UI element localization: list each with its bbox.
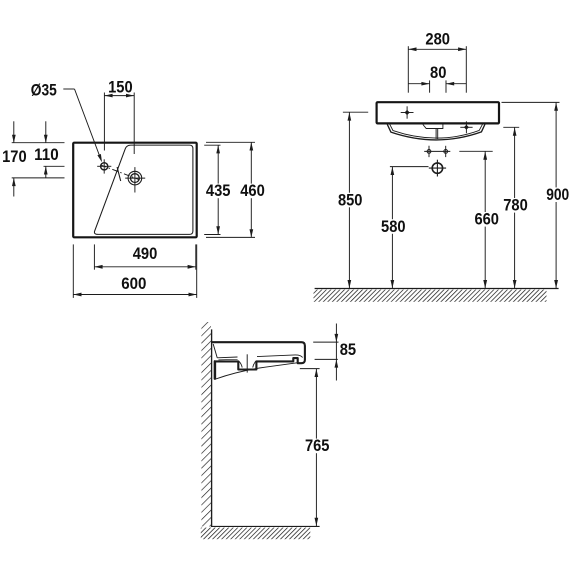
centerline faucet-drain (dash-dot)	[101, 165, 140, 180]
svg-text:150: 150	[108, 78, 133, 96]
floor hatch (side)	[201, 528, 310, 540]
trap funnel curves	[239, 361, 242, 367]
drain outlet (front)	[432, 163, 442, 173]
dim 850	[343, 111, 368, 113]
interior bottom lines	[217, 356, 237, 359]
overflow marker (right)	[460, 126, 472, 128]
svg-text:765: 765	[305, 437, 330, 455]
plan view: outer rim rect 600x460	[73, 143, 197, 238]
dim 600	[73, 294, 196, 296]
dim 435	[217, 145, 219, 234]
dim 490	[94, 266, 195, 268]
leader line for Ø35	[63, 88, 74, 90]
dim 780	[503, 126, 519, 128]
floor hatch (front)	[314, 290, 547, 302]
floor line (side)	[211, 525, 320, 527]
dim 460	[250, 142, 252, 237]
drain column	[435, 129, 437, 139]
supply connections	[424, 150, 450, 152]
dim 765	[300, 368, 320, 370]
svg-text:85: 85	[340, 341, 356, 359]
svg-text:Ø35: Ø35	[31, 81, 57, 99]
svg-text:780: 780	[503, 197, 528, 215]
dim 170	[13, 121, 15, 143]
wall line	[211, 329, 213, 526]
dim 660	[459, 150, 492, 152]
slash tick on centerline	[117, 167, 121, 181]
side profile: rear foot	[214, 361, 217, 378]
right extension lines	[204, 144, 220, 146]
interior back slope	[213, 344, 217, 358]
dim 580	[390, 166, 429, 168]
bowl outline outer	[387, 124, 485, 140]
drain	[128, 171, 142, 185]
floor line (front)	[315, 288, 559, 290]
drain centerline (side)	[246, 354, 248, 372]
bottom extension lines	[93, 244, 95, 269]
svg-text:110: 110	[34, 146, 59, 164]
svg-text:580: 580	[381, 218, 406, 236]
dim 150	[103, 93, 105, 151]
overflow box	[423, 125, 443, 129]
dim 900	[502, 101, 560, 103]
bowl outline inner	[390, 124, 483, 138]
svg-text:660: 660	[474, 211, 499, 229]
side profile: bottom sweep curve	[216, 363, 298, 379]
svg-text:600: 600	[121, 275, 146, 293]
svg-text:850: 850	[338, 191, 363, 209]
dim 280	[407, 46, 409, 92]
plan view: inner basin outline	[94, 145, 192, 234]
svg-text:280: 280	[425, 31, 450, 49]
svg-text:900: 900	[546, 186, 569, 204]
front view: top slab	[377, 102, 499, 123]
dim 85	[313, 341, 338, 343]
wall hatch	[201, 322, 211, 526]
side profile: basin section	[212, 342, 305, 369]
dim 110	[45, 121, 47, 143]
svg-text:80: 80	[430, 64, 446, 82]
svg-text:460: 460	[240, 182, 265, 200]
faucet hole Ø35	[101, 163, 108, 170]
svg-text:170: 170	[2, 148, 27, 166]
dim 80	[429, 80, 431, 92]
left extension lines	[12, 142, 65, 144]
svg-text:435: 435	[206, 182, 231, 200]
faucet hole marker (front)	[401, 112, 414, 114]
svg-text:490: 490	[133, 245, 158, 263]
